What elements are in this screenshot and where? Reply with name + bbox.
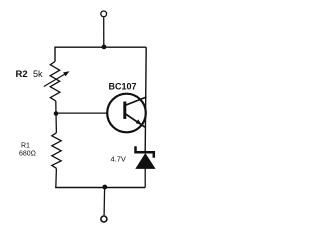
terminal TOP (101, 11, 107, 17)
wire right vertical (collector feed down to zener) (145, 47, 146, 151)
wire top rail (55, 47, 146, 61)
zener diode cathode bar (136, 146, 154, 158)
wire bottom junction to bottom terminal (103, 188, 106, 216)
svg-text:680Ω: 680Ω (19, 151, 36, 158)
junction dot bottom node (102, 185, 107, 190)
wire R2 to base junction (55, 101, 57, 114)
resistor R1 zigzag (52, 133, 61, 169)
zener diode anode triangle (135, 153, 155, 169)
transistor Q1 BC107 (107, 94, 146, 133)
svg-text:BC107: BC107 (109, 82, 137, 92)
svg-text:5k: 5k (33, 69, 43, 79)
svg-text:4.7V: 4.7V (111, 155, 126, 164)
junction dot top node (102, 45, 107, 50)
wire R1 to bottom rail (55, 168, 58, 188)
wire zener to bottom rail (144, 169, 146, 188)
resistor R2 wiper arrow (44, 73, 67, 86)
wire junction to R1 (55, 114, 57, 133)
wire top terminal to top rail (103, 17, 105, 47)
junction dot base node (54, 111, 59, 116)
wire base to transistor (56, 112, 108, 114)
svg-text:R2: R2 (16, 69, 28, 80)
terminal BOTTOM (101, 216, 107, 222)
svg-text:R1: R1 (21, 143, 30, 150)
wire bottom rail (55, 187, 145, 189)
resistor R2 zigzag (50, 62, 60, 102)
